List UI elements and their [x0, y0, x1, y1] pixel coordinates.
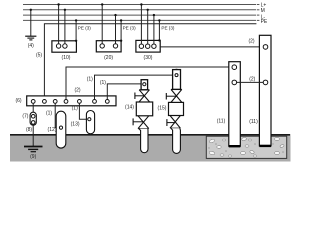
sensor (7) [22, 112, 36, 125]
svg-text:(15): (15) [158, 105, 167, 111]
svg-text:(6): (6) [15, 98, 21, 104]
terminal strip (6) [15, 96, 116, 106]
svg-text:(2): (2) [74, 88, 80, 94]
device (20) transmitter [96, 41, 121, 61]
valve (14) upper valve body [139, 90, 150, 102]
valve (14) lower valve body [138, 116, 149, 129]
wire W3 (1): strip to valve (14) actuator [100, 80, 141, 100]
bus M [23, 8, 265, 14]
bus L+ [23, 3, 266, 9]
concrete foundation block [206, 136, 286, 158]
wire: device (30) to L+ [140, 3, 142, 44]
wire: device (30) to L- [153, 14, 155, 44]
svg-text:(12): (12) [48, 127, 57, 133]
device (30) transmitter [136, 40, 160, 60]
bus PE [23, 19, 268, 25]
svg-text:PE (3): PE (3) [78, 26, 91, 31]
svg-text:(2): (2) [248, 39, 254, 45]
svg-text:PE: PE [261, 19, 268, 25]
valve (14) lower side port [133, 118, 143, 125]
wire PE (3) to device (10) [75, 19, 91, 42]
svg-text:(8): (8) [26, 127, 32, 133]
wire (5): equipotential line from terminal strip [44, 24, 256, 100]
device (10) transmitter [52, 41, 77, 61]
svg-text:(11): (11) [217, 119, 226, 125]
probe (13) [71, 111, 95, 134]
wire (8): sensor (7) to tank ground [26, 125, 33, 146]
svg-text:(5): (5) [36, 52, 42, 58]
wire W2 (1): strip to valve (15) actuator [87, 75, 173, 99]
svg-text:(9): (9) [30, 154, 36, 160]
svg-text:(11): (11) [249, 119, 258, 125]
valve (15) solenoid actuator [173, 69, 181, 90]
wire: device (20) to L+ [101, 3, 103, 43]
wire W1: strip to left electrode [66, 67, 229, 100]
electrode (11) right [249, 35, 271, 146]
wire: device (30) to M [147, 9, 149, 44]
ground (4) [25, 36, 36, 49]
svg-text:(1): (1) [46, 110, 52, 116]
bus L- [23, 14, 265, 20]
svg-text:M: M [261, 8, 265, 14]
svg-text:(1): (1) [87, 76, 93, 82]
wire: device (10) to L+ [57, 3, 59, 44]
svg-text:(1): (1) [72, 106, 78, 112]
svg-text:(7): (7) [22, 114, 28, 120]
svg-text:(1): (1) [100, 80, 106, 86]
svg-text:PE (3): PE (3) [123, 26, 136, 31]
wire PE (3) to device (20) [120, 19, 136, 42]
wire (2): device (30) to right electrode [160, 39, 265, 47]
vessel (15) body [158, 102, 184, 115]
wire: strip to sensor (7) [32, 103, 34, 112]
wire (1): strip to probe (12) [46, 103, 60, 127]
svg-text:(4): (4) [28, 43, 34, 49]
vessel (14) body [125, 102, 153, 116]
valve (15) upper side port [166, 93, 176, 100]
valve (15) upper valve body [171, 89, 182, 102]
dip tube below valve (14) [139, 129, 148, 153]
svg-text:(14): (14) [125, 105, 134, 111]
svg-text:(30): (30) [144, 55, 153, 61]
tank (liquid pit), gray area [10, 134, 291, 162]
electrode (11) left [217, 62, 241, 147]
wire (1): strip to probe (13) [72, 103, 87, 119]
valve (15) lower valve body [170, 116, 180, 129]
svg-text:(2): (2) [249, 76, 255, 82]
probe (12) [48, 111, 66, 148]
valve (15) lower side port [167, 119, 175, 126]
svg-text:(20): (20) [104, 55, 113, 61]
ground (9) in tank [24, 147, 43, 160]
wire: device (20) to L- [114, 14, 116, 44]
valve (14) upper side port [135, 93, 144, 100]
wire (2): left electrode to right electrode [237, 76, 264, 82]
wire PE (3) to device (30) [158, 19, 175, 41]
svg-text:(13): (13) [71, 121, 80, 127]
svg-text:(10): (10) [62, 55, 71, 61]
dip tube below valve (15) [171, 128, 180, 153]
wire: device (10) to M [64, 9, 66, 44]
svg-text:PE (3): PE (3) [161, 26, 174, 31]
valve (14) solenoid actuator [141, 79, 148, 90]
wire: ground drop from bus M [30, 9, 32, 36]
